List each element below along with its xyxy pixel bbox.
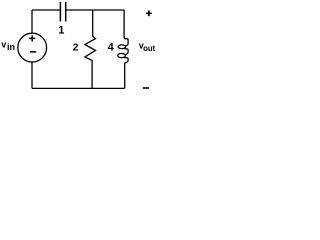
svg-text:4: 4 xyxy=(108,42,115,54)
svg-text:1: 1 xyxy=(58,24,64,36)
svg-text:2: 2 xyxy=(73,42,79,54)
svg-text:out: out xyxy=(143,44,156,53)
svg-text:in: in xyxy=(7,42,15,52)
svg-text:v: v xyxy=(1,40,6,50)
